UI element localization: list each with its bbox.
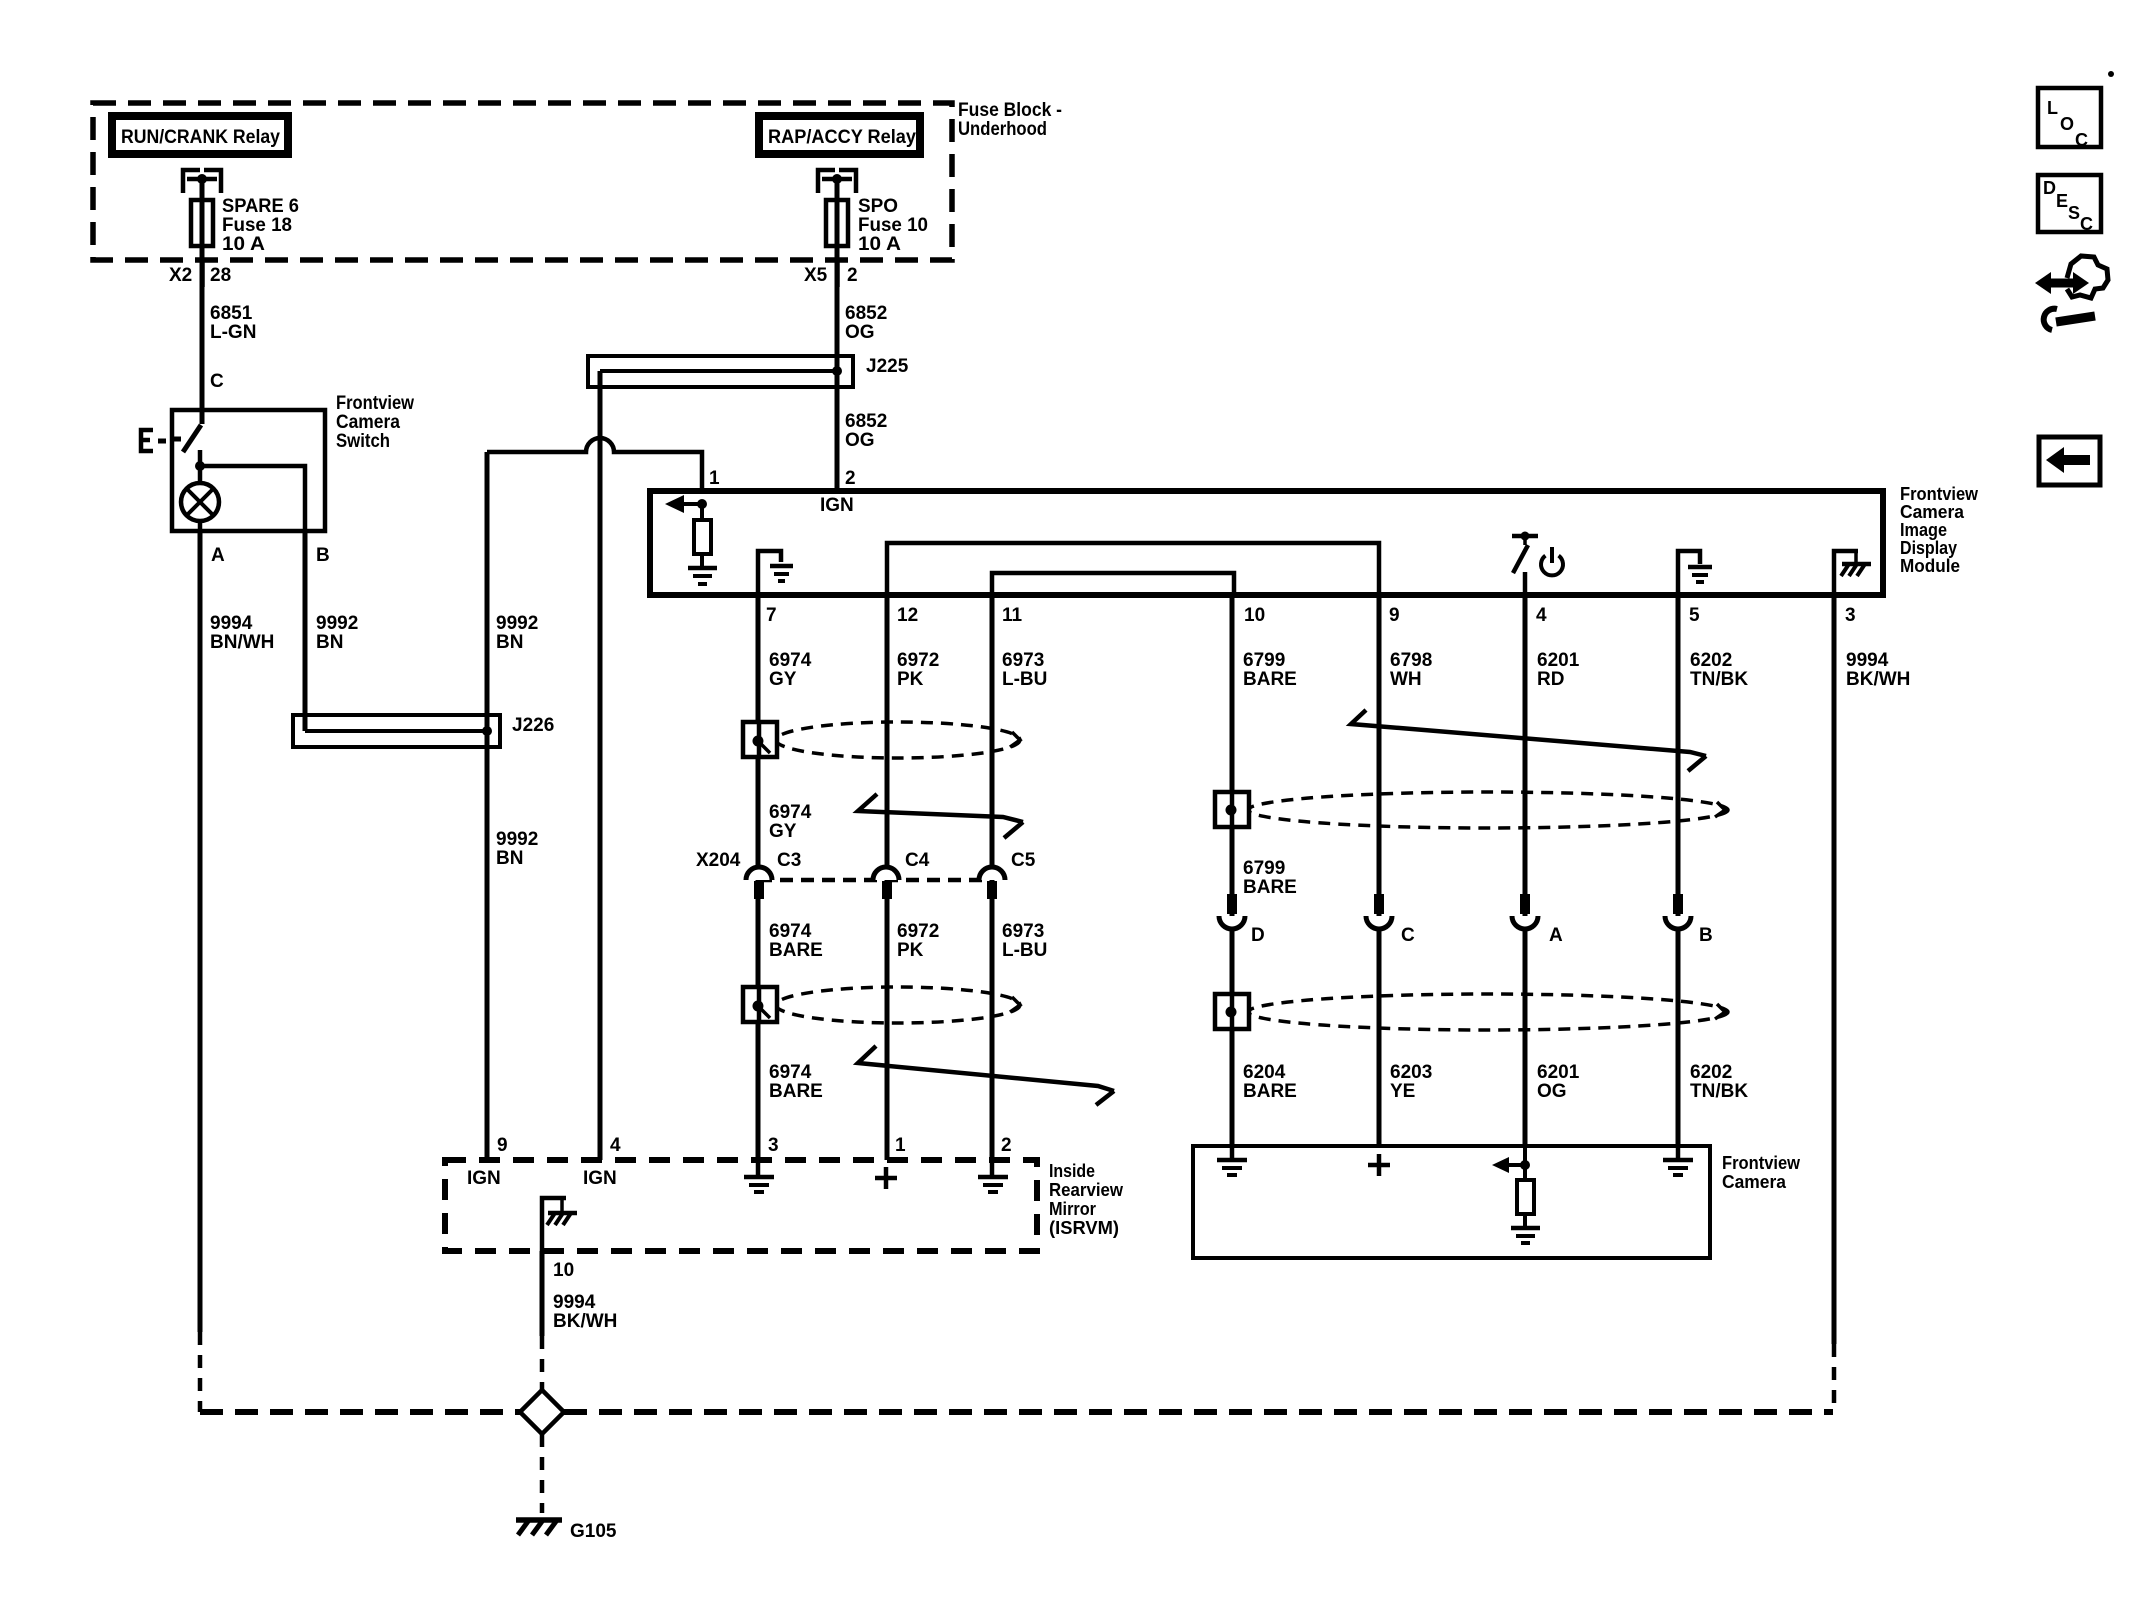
svg-text:OG: OG bbox=[845, 430, 875, 451]
svg-text:BK/WH: BK/WH bbox=[1846, 669, 1910, 690]
svg-text:C4: C4 bbox=[905, 850, 930, 871]
wire 6799 BARE module pin10 to camera pin D bbox=[1230, 598, 1235, 1146]
shield drain box lower on wire 6974 bbox=[743, 987, 777, 1022]
switch lower contact stub bbox=[198, 450, 203, 466]
svg-text:10 A: 10 A bbox=[222, 234, 265, 255]
svg-text:28: 28 bbox=[210, 265, 231, 286]
svg-text:6852: 6852 bbox=[845, 411, 887, 432]
svg-text:L-GN: L-GN bbox=[210, 322, 256, 343]
relay contact terminal left bbox=[183, 170, 221, 193]
svg-text:(ISRVM): (ISRVM) bbox=[1049, 1218, 1119, 1238]
svg-text:BARE: BARE bbox=[1243, 877, 1297, 898]
svg-text:9: 9 bbox=[497, 1135, 508, 1156]
ground G105 chassis symbol bbox=[516, 1520, 617, 1542]
wire 9992 BN from switch pin B to J226 bbox=[303, 533, 308, 731]
wire 6972 PK module pin12 to ISRVM pin1 bbox=[885, 598, 890, 1160]
svg-text:E: E bbox=[2056, 191, 2068, 211]
svg-text:RUN/CRANK Relay: RUN/CRANK Relay bbox=[121, 127, 280, 148]
icon DESC box bbox=[2038, 175, 2101, 234]
shield drain box upper on wire 6974 bbox=[743, 722, 777, 757]
svg-text:J225: J225 bbox=[866, 356, 909, 377]
connector A bbox=[1512, 894, 1563, 946]
svg-text:5: 5 bbox=[1689, 605, 1700, 626]
svg-text:3: 3 bbox=[1845, 605, 1856, 626]
svg-text:Camera: Camera bbox=[336, 412, 400, 433]
dashed wire to ground G105 bbox=[540, 1434, 545, 1513]
svg-text:OG: OG bbox=[845, 322, 875, 343]
wire 6974 GY module pin7 to ISRVM pin3 bbox=[756, 598, 761, 1160]
ISRVM pin10 internal chassis ground bbox=[542, 1198, 577, 1251]
wire from node to module pin 1 with bridge hump bbox=[487, 438, 702, 488]
wire 9994 BN/WH from switch pin A bbox=[198, 533, 203, 1332]
svg-text:Underhood: Underhood bbox=[958, 119, 1047, 140]
svg-text:9: 9 bbox=[1389, 605, 1400, 626]
connector B bbox=[1665, 894, 1713, 946]
relay contact terminal right bbox=[818, 170, 856, 193]
svg-text:6799: 6799 bbox=[1243, 858, 1285, 879]
svg-text:J226: J226 bbox=[512, 715, 554, 736]
svg-text:A: A bbox=[211, 545, 225, 566]
svg-text:Fuse Block -: Fuse Block - bbox=[958, 100, 1062, 121]
svg-text:BN: BN bbox=[496, 632, 523, 653]
dashed bus wire 9994 horizontal left of diamond bbox=[200, 1409, 520, 1415]
svg-text:6202: 6202 bbox=[1690, 650, 1732, 671]
svg-text:BN/WH: BN/WH bbox=[210, 632, 274, 653]
switch actuator E glyph bbox=[141, 430, 153, 451]
svg-text:Mirror: Mirror bbox=[1049, 1199, 1096, 1219]
svg-text:6202: 6202 bbox=[1690, 1062, 1732, 1083]
svg-text:RAP/ACCY Relay: RAP/ACCY Relay bbox=[768, 127, 916, 148]
svg-text:BK/WH: BK/WH bbox=[553, 1311, 617, 1332]
svg-text:OG: OG bbox=[1537, 1081, 1567, 1102]
wire 6973 L-BU module pin11 to ISRVM pin2 bbox=[990, 598, 995, 1160]
svg-text:TN/BK: TN/BK bbox=[1690, 1081, 1748, 1102]
svg-text:IGN: IGN bbox=[820, 495, 854, 516]
svg-text:4: 4 bbox=[1536, 605, 1547, 626]
svg-text:BARE: BARE bbox=[1243, 669, 1297, 690]
svg-text:6974: 6974 bbox=[769, 650, 812, 671]
svg-text:BARE: BARE bbox=[769, 1081, 823, 1102]
splice diamond bbox=[520, 1390, 564, 1434]
ISRVM pin3 internal ground bbox=[744, 1160, 774, 1192]
dashed wire 9994 left vertical bbox=[198, 1332, 203, 1412]
icon back arrow box bbox=[2039, 437, 2100, 485]
svg-text:BN: BN bbox=[316, 632, 343, 653]
svg-text:6204: 6204 bbox=[1243, 1062, 1286, 1083]
shield drain box upper on wire 6799 bbox=[1215, 792, 1249, 827]
dashed bus wire 9994 horizontal right of diamond bbox=[564, 1409, 1833, 1415]
svg-text:11: 11 bbox=[1002, 605, 1023, 626]
relay RAP/ACCY bbox=[759, 116, 920, 154]
svg-text:SPO: SPO bbox=[858, 196, 898, 217]
svg-text:6972: 6972 bbox=[897, 650, 939, 671]
svg-text:1: 1 bbox=[895, 1135, 906, 1156]
twisted pair arrow lower left group bbox=[858, 1046, 1114, 1105]
svg-text:IGN: IGN bbox=[583, 1168, 617, 1189]
svg-text:6973: 6973 bbox=[1002, 921, 1044, 942]
svg-text:C5: C5 bbox=[1011, 850, 1036, 871]
svg-text:C: C bbox=[1401, 925, 1415, 946]
wire 9992 BN vertical to ISRVM pin 9 bbox=[485, 452, 490, 1160]
svg-text:GY: GY bbox=[769, 821, 797, 842]
svg-text:2: 2 bbox=[1001, 1135, 1012, 1156]
svg-text:B: B bbox=[316, 545, 330, 566]
svg-text:BARE: BARE bbox=[769, 940, 823, 961]
svg-text:2: 2 bbox=[847, 265, 858, 286]
camera pinD internal ground bbox=[1217, 1146, 1247, 1175]
wire 9992 BN from J225 to ISRVM pin 4 bbox=[598, 371, 603, 1160]
svg-text:C3: C3 bbox=[777, 850, 801, 871]
svg-text:6974: 6974 bbox=[769, 1062, 812, 1083]
fuse SPO Fuse 10 10A bbox=[826, 200, 848, 246]
svg-text:Module: Module bbox=[1900, 556, 1960, 576]
svg-text:RD: RD bbox=[1537, 669, 1564, 690]
svg-text:6851: 6851 bbox=[210, 303, 253, 324]
icon car with wrench bbox=[2035, 256, 2108, 330]
shield ellipse upper right group bbox=[1248, 792, 1728, 828]
svg-text:YE: YE bbox=[1390, 1081, 1415, 1102]
wire 9994 BK/WH module pin3 down bbox=[1832, 598, 1837, 1344]
svg-text:L: L bbox=[2047, 98, 2058, 118]
shield drain box lower on wire 6204 bbox=[1215, 994, 1249, 1029]
svg-text:GY: GY bbox=[769, 669, 797, 690]
module pin1 internal: node dot, arrow, resistor, ground bbox=[665, 495, 717, 584]
svg-text:Display: Display bbox=[1900, 538, 1957, 558]
connector D bbox=[1219, 894, 1265, 946]
svg-text:Fuse 10: Fuse 10 bbox=[858, 215, 928, 236]
module pin3 internal chassis ground bbox=[1834, 551, 1871, 595]
relay RUN/CRANK bbox=[112, 116, 288, 154]
wire 6798 WH module pin9 to camera pin C bbox=[1377, 598, 1382, 1146]
svg-text:12: 12 bbox=[897, 605, 918, 626]
svg-text:BARE: BARE bbox=[1243, 1081, 1297, 1102]
indicator lamp in switch bbox=[181, 466, 219, 533]
module pin5 internal ground bbox=[1678, 551, 1712, 595]
svg-text:2: 2 bbox=[845, 468, 856, 489]
svg-text:6974: 6974 bbox=[769, 921, 812, 942]
svg-text:6972: 6972 bbox=[897, 921, 939, 942]
svg-text:PK: PK bbox=[897, 669, 924, 690]
module internal link pin11 to pin10 bbox=[992, 573, 1234, 597]
module pin7 internal ground bbox=[758, 551, 793, 595]
switch blade bbox=[183, 425, 201, 452]
svg-text:Rearview: Rearview bbox=[1049, 1180, 1124, 1200]
svg-text:Switch: Switch bbox=[336, 431, 390, 452]
svg-text:WH: WH bbox=[1390, 669, 1422, 690]
svg-text:Frontview: Frontview bbox=[336, 393, 414, 414]
svg-text:TN/BK: TN/BK bbox=[1690, 669, 1748, 690]
splice pack J226 bbox=[293, 715, 554, 747]
shield ellipse upper left group bbox=[776, 722, 1020, 758]
svg-text:Frontview: Frontview bbox=[1722, 1153, 1801, 1173]
svg-text:IGN: IGN bbox=[467, 1168, 501, 1189]
icon LOC box bbox=[2038, 88, 2101, 150]
shield ellipse lower left group bbox=[776, 987, 1020, 1023]
svg-text:9994: 9994 bbox=[210, 613, 253, 634]
svg-text:7: 7 bbox=[766, 605, 777, 626]
splice pack J225 bbox=[588, 356, 909, 387]
ISRVM pin1 internal plus bbox=[875, 1167, 897, 1189]
svg-text:6799: 6799 bbox=[1243, 650, 1285, 671]
module internal link pin12 to pin9 bbox=[887, 543, 1379, 597]
svg-text:10 A: 10 A bbox=[858, 234, 901, 255]
junction dot in switch bbox=[195, 461, 205, 471]
twisted pair arrow left group bbox=[858, 794, 1023, 838]
ISRVM pin2 internal ground bbox=[978, 1160, 1008, 1192]
svg-text:X2: X2 bbox=[169, 265, 192, 286]
svg-text:X5: X5 bbox=[804, 265, 828, 286]
svg-text:9994: 9994 bbox=[553, 1292, 596, 1313]
fuse block underhood dashed box bbox=[93, 103, 952, 260]
svg-text:PK: PK bbox=[897, 940, 924, 961]
module pin4 internal switch with power symbol bbox=[1512, 532, 1563, 596]
svg-text:D: D bbox=[2043, 178, 2056, 198]
camera pinB internal ground bbox=[1663, 1146, 1693, 1175]
svg-text:O: O bbox=[2060, 114, 2074, 134]
svg-text:L-BU: L-BU bbox=[1002, 940, 1047, 961]
svg-text:6973: 6973 bbox=[1002, 650, 1044, 671]
svg-text:Inside: Inside bbox=[1049, 1161, 1095, 1181]
svg-text:9994: 9994 bbox=[1846, 650, 1889, 671]
svg-text:S: S bbox=[2068, 203, 2080, 223]
X204 dashed connector line bbox=[759, 878, 992, 883]
svg-text:6974: 6974 bbox=[769, 802, 812, 823]
frontview camera image display module box bbox=[650, 491, 1883, 595]
shield ellipse lower right group bbox=[1248, 994, 1728, 1030]
svg-text:6852: 6852 bbox=[845, 303, 887, 324]
svg-text:SPARE 6: SPARE 6 bbox=[222, 196, 299, 217]
connector C bbox=[1366, 894, 1415, 946]
svg-text:4: 4 bbox=[610, 1135, 621, 1156]
wire from junction to pin B inside switch bbox=[200, 466, 305, 533]
svg-text:9992: 9992 bbox=[316, 613, 358, 634]
svg-text:3: 3 bbox=[768, 1135, 779, 1156]
svg-text:6201: 6201 bbox=[1537, 1062, 1580, 1083]
fuse SPARE 6 Fuse 18 10A bbox=[191, 200, 213, 246]
svg-text:D: D bbox=[1251, 925, 1265, 946]
svg-text:BN: BN bbox=[496, 848, 523, 869]
connector C3 bbox=[746, 867, 772, 899]
frontview camera box bbox=[1193, 1146, 1710, 1258]
speck dot top right bbox=[2108, 71, 2114, 77]
svg-text:6201: 6201 bbox=[1537, 650, 1580, 671]
svg-text:X204: X204 bbox=[696, 850, 741, 871]
svg-text:A: A bbox=[1549, 925, 1563, 946]
svg-text:Fuse 18: Fuse 18 bbox=[222, 215, 292, 236]
svg-text:Camera: Camera bbox=[1722, 1172, 1787, 1192]
camera pinC internal plus bbox=[1368, 1154, 1390, 1176]
svg-text:6203: 6203 bbox=[1390, 1062, 1432, 1083]
inside rearview mirror ISRVM dashed box bbox=[445, 1160, 1037, 1251]
dashed wire 9994 right vertical bbox=[1832, 1344, 1837, 1412]
svg-text:Camera: Camera bbox=[1900, 502, 1965, 522]
svg-text:6798: 6798 bbox=[1390, 650, 1432, 671]
svg-text:G105: G105 bbox=[570, 1521, 617, 1542]
svg-text:Image: Image bbox=[1900, 520, 1947, 540]
wire 6201 RD module pin4 to camera pin A bbox=[1523, 598, 1528, 1146]
wire from RUN/CRANK relay to switch pin C bbox=[200, 179, 205, 424]
wire 9994 BK/WH from ISRVM pin10 bbox=[540, 1251, 545, 1336]
svg-text:L-BU: L-BU bbox=[1002, 669, 1047, 690]
svg-text:1: 1 bbox=[709, 468, 720, 489]
svg-text:C: C bbox=[2080, 214, 2093, 234]
wire 6852 from RAP/ACCY relay to module pin 2 bbox=[835, 179, 840, 488]
svg-text:C: C bbox=[2075, 130, 2088, 150]
frontview camera switch box bbox=[172, 410, 325, 531]
svg-text:Frontview: Frontview bbox=[1900, 484, 1979, 504]
svg-text:10: 10 bbox=[553, 1260, 574, 1281]
svg-text:9992: 9992 bbox=[496, 613, 538, 634]
twisted pair arrow right group bbox=[1351, 710, 1706, 771]
svg-text:10: 10 bbox=[1244, 605, 1265, 626]
svg-text:B: B bbox=[1699, 925, 1713, 946]
connector C5 bbox=[979, 867, 1005, 899]
svg-text:9992: 9992 bbox=[496, 829, 538, 850]
wire 6202 TN/BK module pin5 to camera pin B bbox=[1676, 598, 1681, 1146]
connector C4 bbox=[873, 867, 899, 899]
svg-text:C: C bbox=[210, 371, 224, 392]
camera pinA internal: dot arrow resistor ground bbox=[1492, 1146, 1540, 1243]
